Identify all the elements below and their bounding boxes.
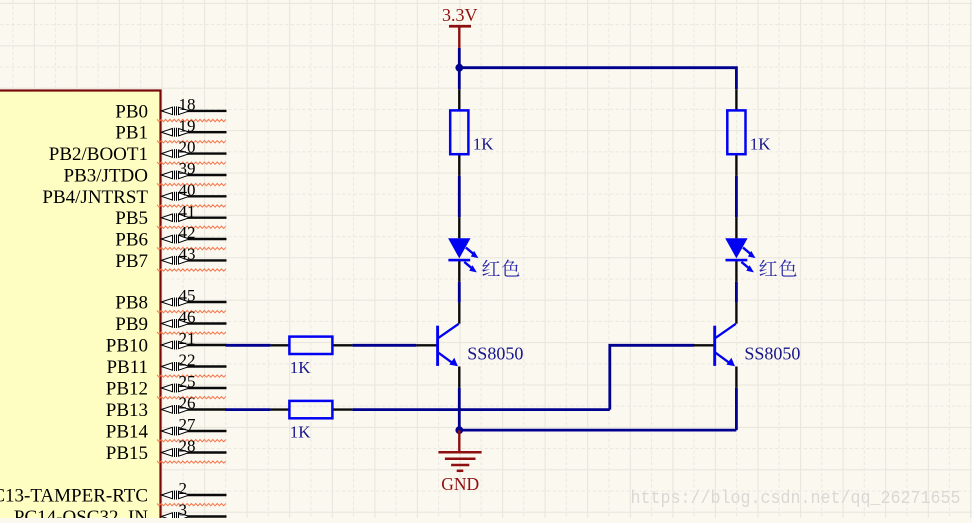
pin 2 (PC13-TAMPER-RTC) (0, 479, 227, 506)
svg-text:PB11: PB11 (106, 357, 148, 378)
svg-text:PB2/BOOT1: PB2/BOOT1 (49, 144, 148, 165)
transistor Q1 SS8050 (NPN) (416, 303, 523, 388)
svg-text:20: 20 (179, 138, 196, 157)
svg-text:PB1: PB1 (115, 123, 148, 144)
pin 20 (PB2/BOOT1) (49, 138, 227, 165)
svg-text:https://blog.csdn.net/qq_26271: https://blog.csdn.net/qq_26271655 (631, 488, 961, 509)
LED D1 (red) (448, 217, 478, 282)
svg-text:22: 22 (179, 351, 196, 370)
resistor R1 1K (vertical) (450, 89, 494, 175)
svg-text:27: 27 (179, 415, 197, 434)
wire: Q2 emitter down (735, 388, 738, 430)
resistor R2 1K (vertical) (727, 89, 771, 175)
svg-text:PB3/JTDO: PB3/JTDO (64, 166, 148, 187)
svg-text:SS8050: SS8050 (467, 344, 523, 364)
pin 21 (PB10) (106, 329, 227, 356)
svg-text:2: 2 (179, 479, 188, 498)
unconnected-pin marker (pin 28) (157, 461, 226, 463)
svg-text:SS8050: SS8050 (744, 344, 800, 364)
svg-text:28: 28 (179, 437, 196, 456)
wire: riser up to Q2 base row (610, 345, 694, 409)
pin 40 (PB4/JNTRST) (42, 180, 226, 207)
svg-text:PB10: PB10 (106, 336, 148, 357)
wire: ground rail to Q2 emitter (459, 429, 736, 432)
LED D2 (red) (725, 217, 755, 282)
svg-text:3.3V: 3.3V (442, 5, 478, 25)
unconnected-pin marker (pin 18) (157, 119, 226, 121)
wire: R1 to LED1 (458, 176, 461, 217)
unconnected-pin marker (pin 43) (157, 269, 226, 271)
pin 39 (PB3/JTDO) (64, 159, 227, 186)
unconnected-pin marker (pin 42) (157, 247, 226, 249)
pin 45 (PB8) (115, 286, 226, 313)
pin 18 (PB0) (115, 95, 226, 122)
svg-text:PB6: PB6 (115, 230, 148, 251)
unconnected-pin marker (pin 27) (157, 440, 226, 442)
svg-text:PB8: PB8 (115, 293, 148, 314)
svg-text:45: 45 (179, 286, 196, 305)
svg-text:39: 39 (179, 159, 196, 178)
wire: R4 to riser (352, 408, 609, 411)
svg-text:1K: 1K (750, 135, 772, 154)
junction at ground rail (455, 426, 463, 434)
svg-text:PB15: PB15 (106, 443, 148, 464)
pin 46 (PB9) (115, 308, 226, 335)
svg-text:3: 3 (179, 501, 188, 518)
unconnected-pin marker (pin 20) (157, 162, 226, 164)
junction at 3.3V rail (455, 64, 463, 72)
svg-text:41: 41 (179, 202, 196, 221)
svg-text:PB14: PB14 (106, 422, 149, 443)
pin 43 (PB7) (115, 245, 226, 272)
resistor R4 1K (horizontal) (271, 401, 353, 442)
svg-text:1K: 1K (290, 358, 312, 377)
svg-text:PC13-TAMPER-RTC: PC13-TAMPER-RTC (0, 486, 148, 507)
svg-text:19: 19 (179, 116, 196, 135)
transistor Q2 SS8050 (NPN) (694, 303, 801, 388)
wire: LED1 to Q1 collector (458, 282, 461, 303)
resistor R3 1K (horizontal) (271, 337, 353, 378)
wire: top rail to right branch (459, 68, 736, 90)
svg-text:PB9: PB9 (115, 314, 148, 335)
pin 3 (PC14-OSC32_IN) (14, 501, 227, 523)
unconnected-pin marker (pin 41) (157, 226, 226, 228)
pin 22 (PB11) (106, 351, 226, 378)
svg-text:1K: 1K (290, 423, 312, 442)
pin 26 (PB13) (106, 394, 227, 421)
wire: PB10 to R3 (226, 344, 271, 347)
svg-text:PC14-OSC32_IN: PC14-OSC32_IN (14, 507, 148, 518)
svg-text:PB12: PB12 (106, 379, 148, 400)
unconnected-pin marker (pin 2) (157, 504, 226, 506)
svg-text:GND: GND (441, 474, 479, 494)
pin 28 (PB15) (106, 437, 227, 464)
unconnected-pin marker (pin 40) (157, 205, 226, 207)
svg-text:42: 42 (179, 223, 196, 242)
svg-text:18: 18 (179, 95, 196, 114)
pin 42 (PB6) (115, 223, 226, 250)
IC U1 (STM32 port B/C) body (0, 91, 161, 523)
svg-text:PB13: PB13 (106, 400, 148, 421)
pin 27 (PB14) (106, 415, 227, 442)
unconnected-pin marker (pin 22) (157, 375, 226, 377)
svg-text:PB0: PB0 (115, 101, 148, 122)
svg-text:21: 21 (179, 329, 196, 348)
pin 19 (PB1) (115, 116, 226, 143)
label 红色 for D2 (759, 260, 796, 277)
unconnected-pin marker (pin 45) (157, 311, 226, 313)
svg-text:PB5: PB5 (115, 208, 148, 229)
svg-text:PB7: PB7 (115, 251, 148, 272)
svg-text:25: 25 (179, 372, 196, 391)
wire: LED2 to Q2 collector (735, 282, 738, 303)
pin 25 (PB12) (106, 372, 227, 399)
wire: Q1 emitter to ground rail (458, 388, 461, 430)
ground GND (438, 430, 481, 494)
svg-text:PB4/JNTRST: PB4/JNTRST (42, 187, 148, 208)
unconnected-pin marker (pin 39) (157, 183, 226, 185)
wire: 3.3V to junction (458, 48, 461, 69)
unconnected-pin marker (pin 19) (157, 141, 226, 143)
svg-text:46: 46 (179, 308, 196, 327)
power port 3.3V (442, 5, 478, 48)
wire: junction to R1 (458, 68, 461, 90)
svg-text:1K: 1K (473, 135, 495, 154)
wire: R2 to LED2 (735, 176, 738, 217)
wire: R3 to Q1 base (352, 344, 416, 347)
svg-text:26: 26 (179, 394, 196, 413)
pin 41 (PB5) (115, 202, 226, 229)
wire: PB13 to R4 (226, 408, 271, 411)
unconnected-pin marker (pin 25) (157, 397, 226, 399)
label 红色 for D1 (482, 260, 519, 277)
svg-text:40: 40 (179, 180, 196, 199)
unconnected-pin marker (pin 46) (157, 332, 226, 334)
svg-text:43: 43 (179, 245, 196, 264)
